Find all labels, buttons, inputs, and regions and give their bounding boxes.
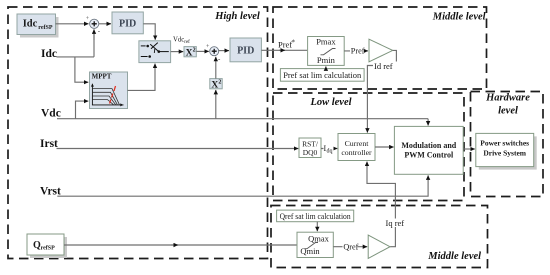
svg-text:dq: dq [327, 149, 333, 155]
svg-text:Middle level: Middle level [427, 251, 481, 262]
node Irst label [40, 138, 58, 150]
svg-text:refSP: refSP [41, 246, 56, 252]
svg-text:X: X [186, 48, 193, 58]
node Pref label [350, 46, 365, 56]
wire Vrst line to Modulation bottom [57, 175, 428, 196]
MPPT block [90, 72, 128, 109]
Middle level (bottom) label [427, 251, 481, 262]
block Pref sat lim calculation [280, 69, 364, 82]
Low level dashed box [273, 93, 464, 201]
wire Idc branch to MPPT [75, 57, 88, 82]
wire Idc line to S1 [57, 29, 95, 57]
wire PID2 to Pmax-Pmin saturation (Pref* line) [261, 49, 307, 51]
svg-text:Qmax: Qmax [308, 234, 330, 244]
node Qref label [343, 242, 359, 252]
block Qref sat lim calculation [277, 210, 354, 222]
block Modulation and PWM Control [394, 126, 463, 174]
node Vrst label [40, 186, 61, 198]
svg-text:Pmin: Pmin [317, 55, 336, 65]
node Idq label [324, 144, 334, 155]
svg-text:refSP: refSP [38, 25, 53, 31]
wire Iq ref to current controller bottom [367, 162, 395, 247]
svg-text:2: 2 [193, 48, 196, 54]
switch block SW1 [139, 41, 171, 63]
PID controller PID1 [112, 12, 143, 34]
Middle level (bottom) dashed box [271, 206, 488, 268]
wire S1 to PID1 [99, 23, 111, 25]
svg-text:Iq ref: Iq ref [386, 218, 405, 228]
svg-text:Qmin: Qmin [300, 246, 320, 256]
svg-text:Middle level: Middle level [432, 11, 486, 22]
node Vdc label [41, 108, 61, 120]
node Iq ref label [385, 218, 404, 228]
wire QrefSP to Qmax-Qmin [64, 244, 297, 246]
block IdcrefSP setpoint [17, 14, 59, 38]
svg-text:Vdc: Vdc [173, 36, 184, 43]
block Pmax-Pmin saturation [308, 37, 345, 66]
svg-text:Current: Current [345, 139, 370, 148]
svg-text:PID: PID [237, 46, 254, 57]
svg-text:level: level [498, 105, 518, 116]
block Current controller [338, 134, 375, 161]
High level dashed box [8, 7, 268, 259]
Hardware level label [485, 92, 530, 116]
wire Pref sat lim to Pmax-Pmin [325, 66, 327, 68]
wire PID1 to switch SW1 [143, 24, 155, 40]
node Vdcref label [173, 36, 190, 45]
svg-text:Idc: Idc [41, 48, 57, 60]
svg-text:Hardware: Hardware [485, 92, 530, 103]
wire S2 to PID2 [219, 50, 229, 52]
svg-text:controller: controller [341, 148, 372, 157]
svg-text:DQ0: DQ0 [303, 148, 318, 157]
wire Vdc to X2b [215, 90, 217, 119]
wire SW1 to X2a [171, 51, 184, 53]
wire Modulation to Power switches [463, 148, 475, 150]
wire current controller to Modulation [375, 146, 394, 148]
Low level label [309, 97, 351, 108]
svg-text:Pref sat lim calculation: Pref sat lim calculation [283, 70, 362, 80]
node Id ref label [373, 61, 404, 71]
wire Vdc main line [57, 118, 428, 120]
node Pref* label [278, 39, 296, 50]
svg-text:Power switches: Power switches [480, 139, 529, 148]
svg-text:Idc: Idc [23, 19, 38, 30]
wire Qref sat lim to Qmax-Qmin [316, 222, 318, 232]
wire IdcrefSP to summing junction S1 [56, 23, 89, 25]
wire Pmax-Pmin to amplifier A1 (Pref) [344, 50, 368, 52]
summing junction S1 [86, 16, 101, 35]
amplifier A2 [368, 235, 390, 258]
svg-text:Modulation and: Modulation and [401, 141, 456, 150]
wire X2b to S2 [215, 57, 217, 79]
wire Irst line to RST/DQ0 [57, 148, 299, 150]
svg-text:PID: PID [119, 19, 136, 30]
svg-text:X: X [211, 80, 218, 90]
amplifier A1 [369, 39, 393, 62]
block RST/DQ0 transform [299, 138, 321, 158]
svg-text:+: + [86, 16, 90, 22]
svg-text:PWM Control: PWM Control [404, 151, 454, 160]
Hardware level dashed box [471, 92, 544, 197]
wire RST/DQ0 to current controller (Idq) [321, 148, 337, 150]
wire A1 output Id ref to current controller [367, 50, 396, 132]
wire MPPT output to switch SW1 [128, 64, 156, 91]
svg-text:Drive System: Drive System [483, 149, 526, 158]
Middle level (top) label [432, 11, 486, 22]
svg-text:Qref: Qref [343, 243, 358, 252]
svg-text:High level: High level [214, 11, 260, 22]
wire Vdc into Modulation top [427, 119, 429, 126]
node Idc label [41, 48, 57, 60]
PID controller PID2 [230, 38, 261, 62]
svg-text:Qref sat lim calculation: Qref sat lim calculation [280, 211, 352, 221]
wire X2a to summing junction S2 [196, 50, 209, 52]
svg-text:MPPT: MPPT [92, 72, 112, 80]
svg-text:ref: ref [184, 40, 190, 45]
summing junction S2 [206, 44, 221, 63]
svg-text:Pmax: Pmax [316, 37, 336, 47]
svg-text:Vdc: Vdc [41, 108, 61, 120]
wire Qmax-Qmin to amplifier A2 (Qref) [333, 246, 367, 248]
svg-text:Pref: Pref [278, 40, 292, 50]
svg-text:Pref: Pref [351, 47, 365, 56]
Middle level (top) dashed box [273, 7, 487, 89]
block X2a squarer [184, 47, 196, 59]
svg-text:*: * [292, 39, 296, 47]
High level label [214, 11, 260, 22]
block X2b squarer [210, 79, 222, 91]
svg-text:Low level: Low level [309, 97, 351, 108]
svg-text:Id ref: Id ref [374, 61, 393, 71]
svg-text:Irst: Irst [40, 138, 58, 150]
block Power switches Drive System [476, 133, 537, 169]
block QrefSP setpoint [27, 234, 67, 258]
block Qmax-Qmin saturation [297, 232, 333, 257]
svg-text:2: 2 [218, 80, 221, 86]
wire Vdc branch to MPPT [76, 101, 89, 119]
